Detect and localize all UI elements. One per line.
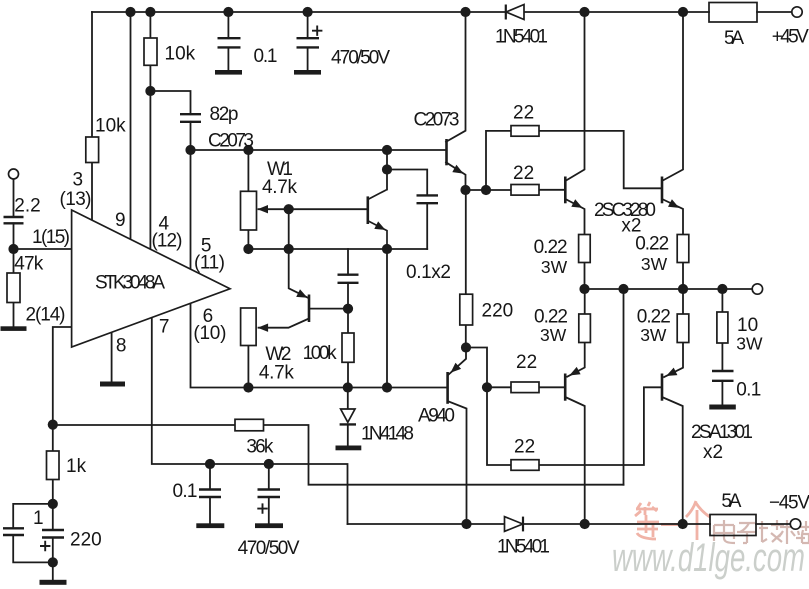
- wire T1 emitter: [566, 200, 584, 235]
- transistor Q1 collector emitter stubs: [368, 190, 387, 200]
- svg-text:1: 1: [33, 508, 44, 529]
- wire 1k leads: [52, 425, 54, 451]
- wire 1N4148 leads: [347, 388, 349, 410]
- svg-text:47k: 47k: [14, 253, 44, 274]
- svg-text:470/50V: 470/50V: [238, 538, 300, 559]
- wire 22-4 path to T4 base: [487, 387, 511, 465]
- junction at (52.8,562.4): [48, 557, 58, 567]
- wire 0.1 top cap lead: [227, 12, 229, 38]
- watermark brand glyph yi: [661, 523, 684, 526]
- watermark site glyph shu: [779, 520, 796, 544]
- wire feedback 36k net: [53, 424, 235, 426]
- wire T2 emitter: [663, 200, 683, 235]
- svg-text:(12): (12): [152, 231, 183, 252]
- capacitor 470/50V bottom plates: [258, 488, 281, 490]
- watermark site glyph ji: [759, 520, 784, 542]
- wire Q2 base to node C: [309, 308, 348, 310]
- transistor Q5 2SC3280 bar: [564, 177, 567, 204]
- resistor 47k: [7, 273, 20, 303]
- arrowhead W2 wiper: [258, 324, 269, 332]
- wire T2 0.22 to output rail: [682, 263, 684, 290]
- junction at (387,387.5): [382, 382, 392, 392]
- ground bar 470/50V bottom: [255, 523, 283, 528]
- ground bar pin 8: [100, 382, 125, 387]
- junction at (288.7,249): [284, 244, 294, 254]
- potentiometer W2 body: [241, 308, 257, 346]
- wire A940 collector: [449, 402, 467, 525]
- wire W1 bottom lead: [247, 230, 249, 249]
- wire 82p to node-B and pin 5: [190, 122, 192, 269]
- wire T1 0.22 to output rail: [584, 263, 586, 290]
- svg-text:(10): (10): [193, 323, 226, 344]
- watermark site glyph dian: [714, 520, 809, 544]
- wire T4 0.22 lead from output rail: [682, 289, 684, 314]
- svg-text:www.d1lge.com: www.d1lge.com: [612, 536, 805, 580]
- wire +45V top rail left segment: [92, 11, 506, 13]
- junction at (288.7,209.2): [284, 204, 294, 214]
- wire C2073 emitter: [446, 162, 466, 190]
- terminal input: [9, 169, 19, 179]
- wire 220 bottom cap leads: [52, 504, 54, 530]
- wire 10k pin4 branch: [149, 12, 151, 38]
- svg-text:2(14): 2(14): [26, 304, 66, 325]
- junction at (387,249): [382, 244, 392, 254]
- plus sign 220 cap: [40, 541, 50, 551]
- svg-text:3W: 3W: [540, 325, 567, 345]
- arrowhead Q8 emitter: [666, 368, 677, 376]
- ground bar zobel: [709, 405, 736, 410]
- wire T1 collector: [566, 12, 584, 180]
- plus sign 470/50V top: [312, 26, 322, 36]
- junction at (248.4,150): [243, 145, 253, 155]
- junction at (387,169.5): [382, 164, 392, 174]
- capacitor 0.1x2 A plates: [417, 194, 439, 196]
- wire 22-3 path to T3 base: [487, 386, 511, 388]
- ground bar 220 cap: [40, 580, 67, 585]
- junction at (466.5,524): [461, 519, 471, 529]
- junction at (623.5,289): [618, 284, 628, 294]
- transistor Q6 2SC3280 bar: [661, 177, 664, 204]
- arrowhead Q1 emitter: [374, 221, 385, 230]
- svg-text:3W: 3W: [641, 254, 668, 274]
- wire pin 6(10) to A940 base: [191, 303, 447, 387]
- svg-text:(11): (11): [194, 253, 225, 274]
- svg-text:0.1: 0.1: [173, 481, 198, 502]
- capacitor 0.1 bottom plates: [199, 488, 221, 490]
- svg-text:1(15): 1(15): [32, 227, 70, 248]
- capacitor 2.2 input plates: [4, 216, 24, 218]
- terminal output: [752, 284, 762, 294]
- ground bar 470/50V top: [294, 70, 321, 75]
- capacitor 1 plates: [3, 527, 24, 529]
- svg-text:220: 220: [482, 301, 514, 322]
- potentiometer W1 body: [241, 191, 257, 230]
- wire T3 collector: [566, 398, 584, 525]
- junction at (190.5,150): [185, 145, 195, 155]
- junction at (683,12): [678, 7, 688, 17]
- junction at (584.5,12): [579, 7, 589, 17]
- resistor 22 third: [511, 382, 539, 393]
- resistor 220 VAS: [460, 294, 473, 325]
- wire +45V top rail right segment: [757, 11, 792, 13]
- junction at (487,387.3): [482, 382, 492, 392]
- wire 470/50V top cap lead: [307, 12, 309, 38]
- junction at (387,150): [382, 145, 392, 155]
- junction at (307.6,12): [303, 7, 313, 17]
- terminal +45V: [792, 7, 802, 17]
- fuse F2 5A bottom: [710, 515, 756, 536]
- wire pin 8 to ground: [111, 332, 113, 381]
- wire zobel leads: [721, 289, 723, 312]
- wire 220 VAS resistor leads: [465, 190, 467, 294]
- wire 22-2 path to T1 base: [486, 189, 511, 191]
- junction at (228.4,12): [223, 7, 233, 17]
- svg-text:2SA1301: 2SA1301: [691, 422, 753, 443]
- transistor Q7 2SA1301 bar: [564, 374, 567, 401]
- capacitor 220 bottom plates: [42, 529, 64, 531]
- wire T2 collector: [663, 12, 683, 180]
- wire -45V bottom rail right segment: [756, 523, 790, 525]
- resistor 1k: [47, 451, 60, 480]
- wire output rail: [585, 288, 753, 290]
- svg-text:1N4148: 1N4148: [361, 424, 414, 445]
- wire W2 bottom lead: [247, 346, 249, 388]
- junction at (248.4,387.5): [243, 382, 253, 392]
- svg-text:A940: A940: [418, 406, 455, 427]
- transistor Q8 2SA1301 bar: [661, 374, 664, 401]
- svg-text:+45V: +45V: [772, 27, 809, 48]
- op-amp U1 STK3048A triangle: [72, 210, 230, 347]
- junction at (52.8,424.6): [48, 420, 58, 430]
- wire Q1 emitter riser: [289, 209, 308, 298]
- ground bar 0.1 bottom: [196, 523, 224, 528]
- wire T4 collector: [663, 398, 683, 525]
- wire Q2 collector to W2 wiper: [259, 319, 310, 328]
- watermark brand glyph di: [635, 502, 659, 539]
- junction at (347.8,387.5): [343, 382, 353, 392]
- junction at (683,289): [678, 284, 688, 294]
- svg-text:22: 22: [513, 163, 534, 184]
- svg-text:0.22: 0.22: [534, 237, 568, 258]
- wire pin 2(14) stub: [53, 327, 72, 425]
- arrowhead Q7 emitter: [569, 367, 580, 376]
- svg-text:5A: 5A: [721, 491, 741, 512]
- svg-text:3: 3: [73, 170, 84, 191]
- transistor Q1 bias NPN bar: [366, 196, 369, 224]
- svg-text:C2073: C2073: [208, 131, 254, 152]
- svg-text:10k: 10k: [165, 44, 196, 65]
- svg-text:0.1: 0.1: [736, 380, 761, 401]
- svg-text:1N5401: 1N5401: [495, 27, 548, 48]
- wire input terminal to 2.2: [13, 179, 15, 217]
- wire -45V bottom rail left segment: [348, 523, 505, 525]
- wire 10k pin3 branch: [91, 12, 93, 137]
- svg-text:4.7k: 4.7k: [259, 363, 295, 384]
- wire 22-1 path to T2 base: [486, 131, 511, 190]
- terminal -45V: [790, 519, 800, 529]
- wire pin 9 branch: [130, 12, 132, 239]
- ground bar 1N4148: [336, 446, 362, 451]
- svg-text:82p: 82p: [210, 104, 239, 125]
- junction at (584.5,289): [579, 284, 589, 294]
- svg-text:470/50V: 470/50V: [331, 48, 390, 69]
- svg-text:4.7k: 4.7k: [262, 177, 298, 198]
- svg-text:22: 22: [513, 103, 534, 124]
- junction at (722.4,289): [717, 284, 727, 294]
- fuse F1 5A top: [709, 3, 757, 23]
- wire 470/50V bottom cap leads: [268, 464, 270, 490]
- resistor 10k pin4: [144, 38, 157, 65]
- resistor 36k: [235, 419, 264, 431]
- svg-text:9: 9: [115, 210, 126, 231]
- svg-text:22: 22: [514, 437, 535, 458]
- arrowhead Q4 emitter: [451, 363, 462, 373]
- svg-text:0.1x2: 0.1x2: [406, 262, 451, 283]
- svg-text:1N5401: 1N5401: [497, 537, 550, 558]
- capacitor 0.1 top plates: [218, 37, 241, 39]
- svg-text:3W: 3W: [640, 325, 667, 345]
- junction at (13.5,249): [8, 244, 18, 254]
- resistor 22 second: [511, 185, 539, 196]
- arrowhead Q2 emitter: [296, 289, 307, 298]
- wire bias vertical x387 upper: [386, 150, 388, 190]
- resistor 0.22 3W third: [579, 314, 591, 343]
- svg-text:3W: 3W: [736, 334, 763, 354]
- junction at (348,308.7): [343, 304, 353, 314]
- wire -45V bottom rail mid segment: [523, 523, 710, 525]
- junction at (52.8,503.9): [48, 499, 58, 509]
- junction at (130.5,12): [125, 7, 135, 17]
- wire T4 emitter: [664, 343, 683, 377]
- svg-text:x2: x2: [703, 442, 723, 463]
- diode D3 1N4148: [341, 409, 355, 422]
- junction at (486,190): [481, 185, 491, 195]
- svg-text:0.22: 0.22: [635, 233, 669, 254]
- svg-text:2.2: 2.2: [14, 195, 40, 216]
- ground bar 47k: [1, 326, 27, 331]
- wire node-B rail y150: [191, 149, 446, 151]
- junction at (150.4,91): [145, 86, 155, 96]
- wire 0.1x2 cap B to node C: [347, 283, 349, 333]
- arrowhead W1 wiper: [258, 205, 269, 213]
- transistor Q2 bias PNP bar: [308, 295, 311, 323]
- watermark site glyph zhan: [796, 521, 809, 543]
- resistor 0.22 3W second: [677, 235, 689, 263]
- resistor 22 fourth: [511, 460, 539, 471]
- svg-text:STK3048A: STK3048A: [95, 273, 165, 294]
- svg-text:1k: 1k: [66, 456, 87, 477]
- wire T3 0.22 lead from output rail: [584, 289, 586, 314]
- wire 2.2 to pin 1(15): [14, 223, 72, 249]
- diode D1 1N5401 top: [506, 5, 524, 20]
- arrowhead Q3 emitter: [452, 165, 463, 174]
- junction at (150.4,12): [145, 7, 155, 17]
- wire 0.1 bottom cap leads: [209, 464, 211, 490]
- junction at (682.7,524): [678, 519, 688, 529]
- svg-text:22: 22: [516, 352, 537, 373]
- diode D2 1N5401 bottom: [505, 517, 523, 532]
- junction at (584.7,524): [580, 519, 590, 529]
- wire W1 top lead: [247, 150, 249, 191]
- svg-text:−45V: −45V: [769, 492, 809, 513]
- junction at (248.4,249): [243, 244, 253, 254]
- wire cap 1 parallel loop: [13, 504, 53, 528]
- wire 47k leads: [13, 249, 15, 273]
- wire 100k bottom lead: [347, 362, 349, 387]
- resistor 0.22 3W first: [579, 235, 591, 263]
- resistor 100k: [342, 333, 354, 362]
- resistor 22 first: [511, 126, 539, 137]
- transistor Q4 A940 bar: [446, 372, 449, 404]
- svg-text:C2073: C2073: [414, 110, 460, 131]
- plus sign 470/50V bottom: [257, 503, 267, 513]
- junction at (465.5,190): [460, 185, 470, 195]
- wire emitter node to 22 riser: [466, 189, 487, 191]
- wire 0.1x2 cap A branch: [387, 170, 427, 196]
- wire W1 wiper to Q1 base: [259, 208, 368, 210]
- svg-text:0.1: 0.1: [254, 46, 278, 67]
- arrowhead Q5 emitter: [571, 199, 582, 208]
- svg-text:8: 8: [116, 335, 127, 356]
- junction at (465.5,12): [460, 7, 470, 17]
- resistor 10 3W zobel: [717, 312, 728, 343]
- wire feedback riser: [623, 289, 625, 485]
- wire +45V top rail mid segment: [524, 11, 709, 13]
- wire A940 emitter: [449, 348, 466, 375]
- junction at (268.8,464): [264, 459, 274, 469]
- resistor 0.22 3W fourth: [677, 314, 689, 343]
- wire 82p branch: [150, 91, 190, 114]
- capacitor 0.1x2 B plates: [338, 274, 359, 276]
- wire bias vertical x387 lower: [386, 249, 388, 388]
- svg-text:7: 7: [159, 317, 170, 338]
- capacitor 82p plates: [180, 113, 201, 115]
- transistor Q3 C2073 bar: [445, 139, 448, 165]
- wire emitter node to 22 riser bottom: [466, 348, 487, 388]
- svg-text:220: 220: [70, 530, 102, 551]
- svg-text:10k: 10k: [95, 116, 126, 137]
- svg-text:(13): (13): [60, 189, 92, 210]
- wire C2073 collector: [446, 12, 466, 142]
- watermark brand glyph ge: [686, 501, 710, 540]
- resistor 10k pin3: [86, 137, 99, 163]
- junction at (210,464): [205, 459, 215, 469]
- capacitor 470/50V top plates: [297, 37, 320, 39]
- wire 0.1x2 cap B top lead: [347, 249, 349, 275]
- svg-text:3W: 3W: [541, 257, 568, 277]
- junction at (466,347.5): [461, 342, 471, 352]
- watermark site glyph zi: [737, 523, 756, 543]
- svg-text:36k: 36k: [246, 437, 274, 458]
- wire T3 emitter: [567, 343, 584, 377]
- capacitor 0.1 zobel plates: [712, 370, 734, 372]
- wire bias rail y249: [248, 248, 427, 250]
- ground bar 0.1 top: [215, 70, 242, 75]
- svg-text:5A: 5A: [724, 28, 744, 49]
- svg-text:100k: 100k: [303, 343, 338, 364]
- wire pin 7 to negative net: [152, 318, 348, 525]
- arrowhead Q6 emitter: [668, 199, 679, 208]
